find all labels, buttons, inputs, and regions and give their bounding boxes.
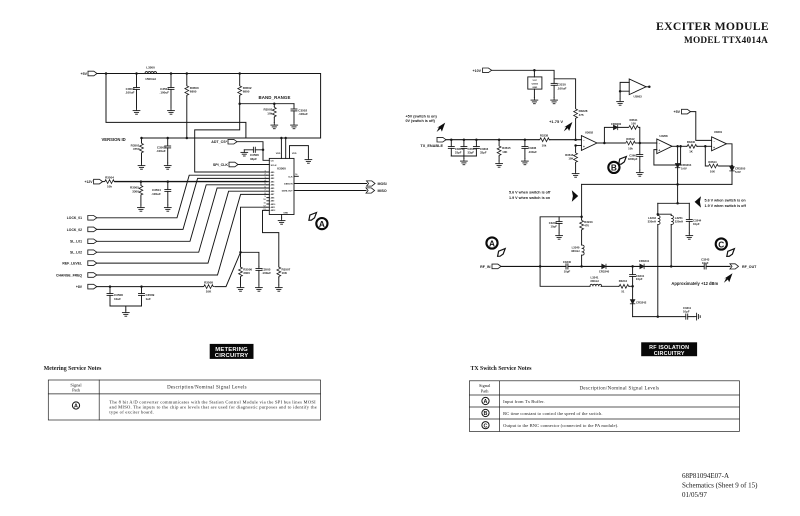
svg-text:B: B <box>484 411 488 417</box>
svg-text:U3600: U3600 <box>532 83 539 85</box>
diode CR3204 <box>675 146 691 184</box>
ground C3508 C3509 <box>122 310 129 316</box>
svg-text:AN11: AN11 <box>271 206 276 209</box>
svg-text:1.9 V when switch is off: 1.9 V when switch is off <box>705 204 747 208</box>
junction dot coil branch <box>657 213 660 216</box>
wire SL_L01 to pin 5 <box>97 185 267 242</box>
label 5.6V switch on <box>705 199 747 208</box>
wire U3208 feedback <box>654 146 681 165</box>
svg-text:AN1: AN1 <box>271 174 275 177</box>
resistor R3611 <box>628 118 639 129</box>
wire REF_LEVEL to pin 7 <box>97 191 267 263</box>
svg-text:AN9: AN9 <box>271 200 275 203</box>
wire BAND_RANGE to chip <box>195 104 267 172</box>
junction dots BAND_RANGE <box>238 102 275 105</box>
svg-text:C3240: C3240 <box>563 260 572 264</box>
wire SPI_CLK to chip <box>238 164 269 166</box>
capacitor C3504 <box>151 182 171 205</box>
resistor R3502 <box>238 74 252 104</box>
svg-text:Input from Tx Buffer.: Input from Tx Buffer. <box>503 399 545 404</box>
svg-text:+12V: +12V <box>84 180 93 184</box>
label METERING CIRCUITRY <box>210 344 254 359</box>
U3500 CLK stub pin 16 <box>294 174 298 177</box>
svg-text:33pF: 33pF <box>455 151 462 155</box>
node RF_IN input <box>480 264 501 269</box>
capacitor C3240 inline <box>563 260 572 274</box>
svg-text:+: + <box>583 145 585 149</box>
svg-text:1500nH: 1500nH <box>145 77 156 81</box>
circled A schematic <box>316 218 327 229</box>
wire speedup loop <box>604 127 639 143</box>
svg-text:5.6 V when switch is on: 5.6 V when switch is on <box>705 199 747 203</box>
resistor R3503 <box>263 104 276 123</box>
ground U3603 <box>617 99 624 105</box>
wire CHANGE_FREQ to pin 8 <box>97 194 267 275</box>
capacitor C3211 inline <box>683 306 692 319</box>
wire node to C3505 <box>241 252 259 266</box>
svg-text:U3208: U3208 <box>659 134 668 138</box>
wire to R3228 <box>554 79 576 108</box>
wire coil branch <box>658 203 671 215</box>
capacitor C3502 <box>291 104 308 123</box>
regulator U3600 <box>528 70 542 97</box>
circled B table row <box>482 409 489 417</box>
inductor L3241 <box>590 276 602 287</box>
ground R3507 <box>275 285 282 291</box>
ground C3505 <box>256 285 263 291</box>
svg-text:+5V: +5V <box>674 110 681 114</box>
svg-text:10k: 10k <box>628 146 633 150</box>
ground R3503 <box>271 123 278 129</box>
wire BAND_RANGE node <box>240 103 294 105</box>
svg-text:10k: 10k <box>267 111 272 115</box>
svg-text:RF_OUT: RF_OUT <box>742 265 757 269</box>
op-amp U3602 <box>581 131 597 151</box>
resistor R3228 <box>574 108 588 140</box>
capacitor C3506 <box>244 147 264 161</box>
node +12V input <box>84 179 102 184</box>
resistor R3614 <box>708 160 719 173</box>
svg-text:CS: CS <box>271 161 275 163</box>
ground U3600 <box>531 98 538 104</box>
junction dot shunt <box>580 216 583 219</box>
svg-text:SPI_CLK: SPI_CLK <box>213 163 229 167</box>
svg-text:Description/Nominal Signal Lev: Description/Nominal Signal Levels <box>580 386 660 391</box>
wire RF_IN line <box>501 265 730 267</box>
capacitor C3614 <box>448 140 463 156</box>
svg-text:475: 475 <box>579 113 584 117</box>
svg-text:33pF: 33pF <box>480 151 487 155</box>
svg-text:.100uF: .100uF <box>159 91 169 95</box>
ground C3211 <box>694 313 700 320</box>
svg-text:Approximately +12 dBm: Approximately +12 dBm <box>671 281 718 286</box>
note marker B arrow <box>619 157 627 165</box>
resistor R3240 <box>686 140 697 153</box>
svg-text:METERING: METERING <box>215 347 248 353</box>
svg-text:VDD: VDD <box>292 153 297 155</box>
svg-text:CIRCUITRY: CIRCUITRY <box>215 353 249 359</box>
ground C3501 <box>168 108 175 114</box>
note marker A arrow rf <box>498 249 506 257</box>
svg-text:330nH: 330nH <box>648 219 656 223</box>
resistor R3615 <box>497 140 511 161</box>
svg-text:U3601: U3601 <box>714 130 723 134</box>
svg-text:-: - <box>583 138 584 142</box>
svg-text:+10V: +10V <box>473 69 482 73</box>
wire +8V diagonal to node <box>215 207 267 286</box>
svg-text:TX_ENABLE: TX_ENABLE <box>420 144 443 148</box>
circled A rf <box>486 237 497 248</box>
diode CR3205 <box>730 166 746 184</box>
svg-text:GND: GND <box>532 87 537 89</box>
resistor R3238 <box>539 134 550 148</box>
svg-text:U3500: U3500 <box>277 166 286 170</box>
svg-text:3300: 3300 <box>132 190 139 194</box>
svg-text:LOCK_02: LOCK_02 <box>67 228 82 232</box>
wire control tee <box>658 202 690 204</box>
junction dots RF line <box>539 265 673 268</box>
svg-text:TX Switch Service Notes: TX Switch Service Notes <box>471 366 533 372</box>
svg-text:.100uF: .100uF <box>125 91 135 95</box>
resistor R3501 <box>131 138 144 163</box>
inductor L3240 <box>571 245 584 266</box>
svg-text:+5V (switch is on): +5V (switch is on) <box>406 114 438 118</box>
junction dots +12V rail <box>140 180 169 183</box>
resistor R3243 <box>580 220 593 246</box>
svg-text:R3504: R3504 <box>105 176 114 180</box>
capacitor C3210 <box>551 83 567 91</box>
junction dot +8V node <box>239 251 242 254</box>
svg-text:CR3240: CR3240 <box>599 270 610 274</box>
node LOCK_02 input <box>67 227 97 232</box>
svg-text:BAND_RANGE: BAND_RANGE <box>259 95 291 100</box>
svg-text:CIRCUITRY: CIRCUITRY <box>654 351 685 357</box>
svg-text:9: 9 <box>264 196 266 198</box>
svg-text:SL_L01: SL_L01 <box>70 240 82 244</box>
svg-text:6800: 6800 <box>243 90 250 94</box>
svg-text:10uF: 10uF <box>114 297 121 301</box>
node +8V input <box>76 284 97 289</box>
svg-text:SL_L02: SL_L02 <box>70 251 82 255</box>
svg-text:R3240: R3240 <box>687 140 696 144</box>
svg-text:0V (switch is off): 0V (switch is off) <box>406 119 436 123</box>
svg-text:1uF: 1uF <box>146 297 152 301</box>
svg-text:+1.75 V: +1.75 V <box>549 119 563 124</box>
label RF ISOLATION CIRCUITRY <box>641 342 697 357</box>
svg-text:.100uF: .100uF <box>557 86 567 90</box>
svg-text:5.6 V when switch is off: 5.6 V when switch is off <box>509 191 551 195</box>
svg-text:+5V: +5V <box>81 72 88 76</box>
wire +5V top rail <box>97 74 321 139</box>
capacitor C3501 <box>159 74 174 109</box>
wire ADT_CS* to chip <box>237 142 269 161</box>
ground R3505 <box>138 205 145 211</box>
svg-text:AN8: AN8 <box>271 196 275 199</box>
svg-text:CR3241: CR3241 <box>639 259 650 263</box>
inductor L3251 <box>671 216 683 267</box>
svg-text:C: C <box>484 423 488 429</box>
wire pin 13 to R3507 <box>263 210 279 266</box>
U3500 ground pin <box>281 215 283 219</box>
junction dot U3603 <box>619 90 622 93</box>
wire lower loop <box>540 266 633 286</box>
resistor R3612 <box>625 137 636 150</box>
ground R3501 <box>138 163 145 169</box>
svg-text:LOCK_01: LOCK_01 <box>67 216 82 220</box>
svg-text:10pF: 10pF <box>693 222 700 226</box>
svg-text:SCLK: SCLK <box>271 165 277 167</box>
svg-text:AN4: AN4 <box>271 184 275 187</box>
svg-text:R3508: R3508 <box>204 281 213 285</box>
wire U3603 output stub <box>646 86 650 89</box>
capacitor C3505 <box>256 266 271 285</box>
note arrow +1.75V <box>564 122 573 131</box>
ground C3246 <box>556 233 563 239</box>
resistor R3507 <box>277 266 291 285</box>
U3500 VDD2 pin stub <box>284 137 287 159</box>
wire +12V rail to pin 4 <box>115 181 267 183</box>
ground C3503 <box>164 163 171 169</box>
svg-text:EXCITER MODULE: EXCITER MODULE <box>656 20 769 33</box>
op-amp U3603 unused <box>629 79 646 99</box>
svg-text:10K: 10K <box>568 157 573 161</box>
wire +8V to R3508 <box>97 286 203 288</box>
junction dots top rail <box>105 72 241 75</box>
svg-text:Metering Service Notes: Metering Service Notes <box>44 366 102 372</box>
svg-text:51: 51 <box>621 290 625 294</box>
svg-text:R3614: R3614 <box>708 160 717 164</box>
diode CR3242 <box>630 286 646 316</box>
svg-text:.100uF: .100uF <box>156 149 166 153</box>
svg-text:5.6V: 5.6V <box>681 167 687 171</box>
note arrow dBm <box>724 273 733 282</box>
junction dots +8V <box>109 285 143 288</box>
svg-text:.100uF: .100uF <box>151 192 161 196</box>
svg-text:R3244: R3244 <box>619 279 628 283</box>
svg-text:68P81094E07-A: 68P81094E07-A <box>682 472 729 480</box>
wire +5V left loop <box>106 74 246 139</box>
svg-text:AN6: AN6 <box>271 190 275 193</box>
node MISO output <box>366 188 387 193</box>
wire +10V rail <box>492 70 554 97</box>
svg-text:.100uF: .100uF <box>262 271 272 275</box>
wire U3603 inputs tied <box>620 82 629 99</box>
capacitor C3607 <box>628 143 643 170</box>
capacitor C3236 <box>522 140 537 159</box>
circled C table row <box>482 422 489 430</box>
ground U3500 VSS <box>305 157 312 163</box>
junction dots U3208 out <box>676 145 682 148</box>
resistor R3505 <box>130 182 143 205</box>
svg-text:10pF: 10pF <box>683 310 690 314</box>
wire zener bus <box>582 183 732 185</box>
wire cap common bus <box>451 156 476 159</box>
junction dots tx line <box>450 138 577 141</box>
svg-text:U3602: U3602 <box>585 131 594 135</box>
svg-text:10pF: 10pF <box>564 270 571 274</box>
svg-text:470: 470 <box>584 223 589 227</box>
node +5V input <box>81 71 98 76</box>
ground C3504 <box>164 205 171 211</box>
note marker C arrow <box>727 249 735 257</box>
svg-text:AN3: AN3 <box>271 180 275 183</box>
junction dot regulator <box>533 69 536 72</box>
diode CR3241 <box>639 259 650 269</box>
svg-text:A: A <box>489 238 495 248</box>
ground R3506 <box>237 285 244 291</box>
svg-text:Path: Path <box>481 388 490 393</box>
diode CR3240 <box>599 264 610 274</box>
svg-text:type of exciter board.: type of exciter board. <box>109 409 154 414</box>
resistor R3508 <box>203 281 214 294</box>
circled B schematic <box>608 162 619 173</box>
svg-text:10k: 10k <box>107 185 112 189</box>
svg-text:16: 16 <box>295 174 298 176</box>
svg-text:10K: 10K <box>206 290 212 294</box>
svg-text:1.9 V when switch is on: 1.9 V when switch is on <box>509 196 551 200</box>
svg-text:10K: 10K <box>282 271 288 275</box>
node TX_ENABLE input <box>420 137 446 148</box>
capacitor C3509 <box>139 287 155 306</box>
svg-text:AN2: AN2 <box>271 177 275 180</box>
svg-text:10: 10 <box>263 199 266 201</box>
capacitor C3244 <box>686 203 701 233</box>
node RF_OUT output <box>730 264 757 269</box>
svg-text:REF_LEVEL: REF_LEVEL <box>62 262 82 266</box>
svg-text:A: A <box>74 404 78 410</box>
svg-text:VERSION ID: VERSION ID <box>102 137 126 142</box>
junction dot R3614 <box>731 165 734 168</box>
note marker A arrow <box>309 213 317 221</box>
svg-text:R3238: R3238 <box>540 134 549 138</box>
capacitor C3500 <box>125 74 140 109</box>
svg-text:10pF: 10pF <box>702 261 709 265</box>
svg-text:AN5: AN5 <box>271 187 275 190</box>
svg-text:-: - <box>714 139 715 143</box>
junction dot divider <box>574 144 577 147</box>
svg-text:100: 100 <box>631 122 636 126</box>
svg-text:AN12: AN12 <box>271 209 276 212</box>
resistor R3504 <box>103 176 115 189</box>
wire bottom bus <box>633 316 694 318</box>
U3500 VSS pin stub <box>290 146 309 159</box>
svg-text:CR3242: CR3242 <box>636 300 647 304</box>
svg-text:A: A <box>319 219 325 229</box>
svg-text:MISO: MISO <box>378 189 387 193</box>
wire +5V to minus input <box>691 112 712 141</box>
resistor R3616 <box>565 146 577 172</box>
svg-text:RF_IN: RF_IN <box>480 265 491 269</box>
svg-text:AN7: AN7 <box>271 193 275 196</box>
label +5V switch states <box>406 114 438 123</box>
svg-text:10pF: 10pF <box>550 224 557 228</box>
svg-text:A: A <box>484 399 488 405</box>
ground R3615 <box>496 161 503 167</box>
svg-text:10K: 10K <box>710 169 715 173</box>
svg-text:AN0: AN0 <box>271 171 275 174</box>
wire hysteresis loop R3614 <box>705 146 732 166</box>
table metering service notes <box>48 380 320 420</box>
svg-text:DATA OUT: DATA OUT <box>282 190 294 193</box>
svg-text:.100uF: .100uF <box>298 112 308 116</box>
svg-text:VCC: VCC <box>532 80 537 82</box>
svg-text:C: C <box>718 239 724 249</box>
svg-text:01/05/97: 01/05/97 <box>682 491 707 499</box>
svg-text:MOSI: MOSI <box>378 182 387 186</box>
capacitor C3243 inline <box>701 257 710 269</box>
wire LOCK_01 to pin 2 <box>97 175 267 218</box>
inductor L3500 <box>145 66 157 81</box>
svg-text:3300: 3300 <box>243 271 250 275</box>
A/D converter U3500 <box>269 158 294 214</box>
svg-text:.100uF: .100uF <box>528 150 537 154</box>
junction dot bottom bus <box>657 315 660 318</box>
wire LOCK_02 to pin 3 <box>97 178 267 229</box>
wire bus corner to R3243 <box>581 184 583 219</box>
svg-text:ADT_CS*: ADT_CS* <box>211 140 227 144</box>
svg-text:Path: Path <box>72 388 81 393</box>
node SL_L01 input <box>70 239 97 244</box>
circled C schematic <box>716 238 727 249</box>
node ADT_CS* input <box>211 139 237 144</box>
wire control column <box>677 184 679 203</box>
svg-text:Schematics (Sheet 9 of 15): Schematics (Sheet 9 of 15) <box>682 482 758 490</box>
capacitor C3503 <box>156 138 171 163</box>
capacitor C3616 <box>473 140 488 156</box>
ground C3210 <box>551 98 558 104</box>
ground C3607 <box>636 170 643 176</box>
svg-text:Signal: Signal <box>479 383 491 388</box>
svg-text:L3500: L3500 <box>146 66 155 70</box>
circled A table row <box>72 402 79 410</box>
svg-text:-: - <box>659 142 660 146</box>
resistor R3506 <box>239 252 253 285</box>
wire SL_L02 to pin 6 <box>97 188 267 252</box>
junction dot loop <box>631 285 634 288</box>
svg-text:+: + <box>713 146 715 150</box>
svg-text:RF ISOLATION: RF ISOLATION <box>649 345 689 351</box>
junction dots output <box>603 142 641 145</box>
junction dots version rail <box>140 137 282 140</box>
ground C3244 <box>686 233 693 239</box>
wire U3601 output <box>727 144 733 167</box>
svg-text:U3603: U3603 <box>633 95 642 99</box>
svg-text:CR3600: CR3600 <box>611 122 622 126</box>
wire U3208 output <box>672 145 686 147</box>
node SL_L02 input <box>70 250 97 255</box>
svg-text:VDD: VDD <box>276 153 281 155</box>
ground U3500 <box>278 218 285 224</box>
node CHANGE_FREQ input <box>56 273 97 278</box>
svg-text:3300pF: 3300pF <box>628 157 638 161</box>
capacitor C3508 <box>107 287 123 306</box>
svg-text:RC time constant to control th: RC time constant to control the speed of… <box>503 411 602 416</box>
svg-text:GND: GND <box>283 212 288 214</box>
node SPI_CLK input <box>213 162 238 167</box>
capacitor C3246 <box>549 217 562 233</box>
svg-text:10k: 10k <box>542 143 547 147</box>
svg-text:1K: 1K <box>689 150 693 154</box>
svg-text:10pF: 10pF <box>636 277 643 281</box>
junction dot hysteresis <box>704 145 707 148</box>
wire MOSI from DATA IN <box>294 183 367 185</box>
wire TX_ENABLE line <box>446 139 581 141</box>
node +5V input comparator <box>674 109 691 114</box>
note arrow left <box>695 196 701 207</box>
svg-text:+: + <box>658 148 660 152</box>
svg-text:AN10: AN10 <box>271 203 276 206</box>
svg-text:330nH: 330nH <box>571 249 579 253</box>
